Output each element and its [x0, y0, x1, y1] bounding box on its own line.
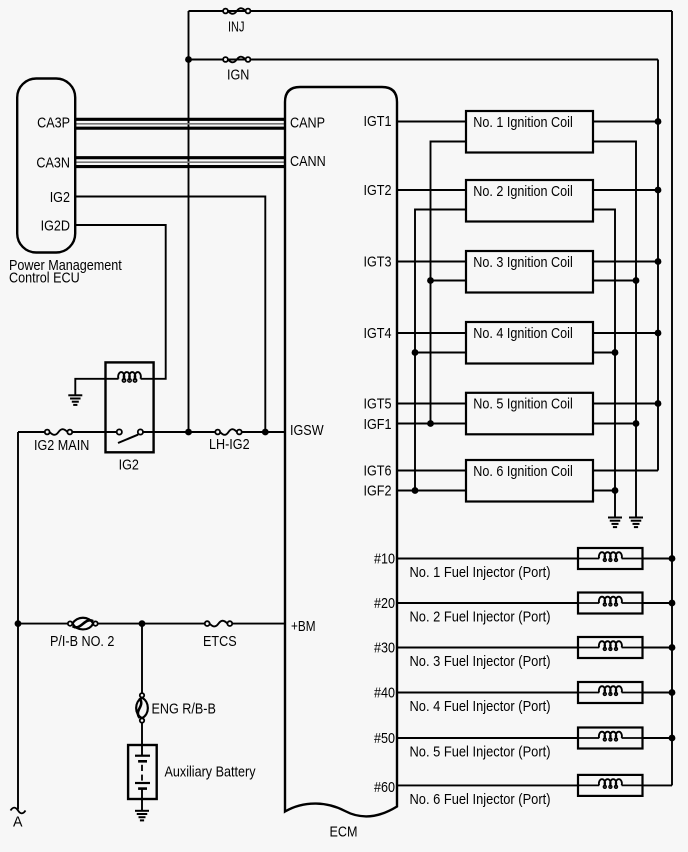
- node junction coil 2 power: [655, 187, 662, 194]
- ignition coil box No. 2: [466, 180, 593, 222]
- svg-text:IG2: IG2: [119, 457, 139, 474]
- ground battery: [135, 811, 149, 821]
- svg-text:No. 1 Fuel Injector (Port): No. 1 Fuel Injector (Port): [410, 564, 551, 581]
- ignition coil box No. 4: [466, 322, 593, 364]
- wire ENG R/B-B link to battery: [141, 723, 143, 745]
- wire ECM IGT3 to coil 3: [397, 261, 466, 263]
- wire ECM #60 to injector 6: [397, 784, 578, 786]
- wire ECM IGT5 to coil 5: [397, 403, 466, 405]
- wire battery branch down to ENG R/B-B link: [141, 624, 143, 694]
- node junction injector 3 feed: [669, 644, 676, 651]
- wire injector 6 to INJ bus: [643, 784, 673, 786]
- ground ignition coils A: [629, 518, 643, 528]
- wire ECM IGT1 to coil 1: [397, 121, 466, 123]
- ignition coil box No. 3: [466, 251, 593, 293]
- svg-text:CA3P: CA3P: [37, 115, 70, 132]
- wire CANN twisted bus (CA3N to CANN): [76, 158, 285, 167]
- svg-text:No. 1 Ignition Coil: No. 1 Ignition Coil: [473, 114, 573, 131]
- node junction IGF2 coil4: [412, 349, 419, 356]
- svg-text:Control ECU: Control ECU: [9, 270, 80, 287]
- node junction IG2 sense tap: [262, 429, 269, 436]
- svg-text:IGT6: IGT6: [364, 462, 392, 479]
- node junction injector 5 feed: [669, 735, 676, 742]
- svg-text:#30: #30: [374, 640, 395, 657]
- fuel injector box No. 5: [578, 728, 643, 749]
- svg-text:ECM: ECM: [330, 823, 358, 840]
- relay IG2 coil: [118, 372, 141, 382]
- node junction injector 4 feed: [669, 689, 676, 696]
- svg-text:IGSW: IGSW: [290, 422, 324, 439]
- svg-text:IGT3: IGT3: [364, 253, 392, 270]
- fuel injector coil No. 1: [578, 552, 643, 561]
- svg-text:No. 4 Fuel Injector (Port): No. 4 Fuel Injector (Port): [410, 698, 551, 715]
- svg-text:No. 3 Ignition Coil: No. 3 Ignition Coil: [473, 254, 573, 271]
- fuel injector box No. 4: [578, 682, 643, 703]
- node junction IGN tap: [185, 56, 192, 63]
- fusible link P/I-B NO. 2: [68, 618, 98, 630]
- wire ECM IGT2 to coil 2: [397, 189, 466, 191]
- node junction coil 4 power: [655, 330, 662, 337]
- fuel injector box No. 3: [578, 637, 643, 658]
- svg-text:+BM: +BM: [291, 618, 316, 635]
- svg-text:#50: #50: [374, 730, 395, 747]
- svg-text:IGT1: IGT1: [364, 113, 392, 130]
- svg-text:No. 2 Fuel Injector (Port): No. 2 Fuel Injector (Port): [410, 609, 551, 626]
- node junction ground bus coil3: [633, 277, 640, 284]
- svg-text:IGF2: IGF2: [364, 483, 392, 500]
- wire ECM #20 to injector 2: [397, 602, 578, 604]
- wire ECM #40 to injector 4: [397, 692, 578, 694]
- svg-text:No. 6 Fuel Injector (Port): No. 6 Fuel Injector (Port): [410, 791, 551, 808]
- wire coil ground bus B (2,4,6): [593, 210, 615, 518]
- fuel injector box No. 2: [578, 593, 643, 614]
- wire coil 2 power feed: [593, 189, 658, 191]
- wire IGN feed: [189, 59, 659, 61]
- fuse IG2 MAIN: [45, 429, 72, 435]
- wire fusible link to ETCS fuse: [98, 623, 205, 625]
- fuel injector coil No. 4: [578, 686, 643, 695]
- relay IG2 switch contacts: [117, 429, 143, 443]
- wire injector 5 to INJ bus: [643, 737, 673, 739]
- svg-text:No. 6 Ignition Coil: No. 6 Ignition Coil: [473, 463, 573, 480]
- ground relay coil: [68, 395, 82, 405]
- wire relay output to LH-IG2 fuse: [143, 431, 215, 433]
- svg-text:IGT5: IGT5: [364, 396, 392, 413]
- ignition coil box No. 1: [466, 111, 593, 153]
- wire IGN bus down to ignition coils: [657, 60, 659, 471]
- svg-text:#60: #60: [374, 779, 395, 796]
- node junction coil 5 power: [655, 400, 662, 407]
- svg-text:P/I-B NO. 2: P/I-B NO. 2: [50, 633, 114, 650]
- node junction injector 1 feed: [669, 555, 676, 562]
- wire main IG2 row left segment: [18, 431, 45, 433]
- wire ECM #10 to injector 1: [397, 558, 578, 560]
- wire LH-IG2 fuse to ECM IGSW: [242, 431, 285, 433]
- svg-text:CA3N: CA3N: [36, 155, 70, 172]
- svg-text:#40: #40: [374, 685, 395, 702]
- wire injector 4 to INJ bus: [643, 692, 673, 694]
- box ECM outline with torn bottom: [285, 87, 397, 816]
- wire ECM IGT6 to coil 6: [397, 470, 466, 472]
- svg-text:No. 2 Ignition Coil: No. 2 Ignition Coil: [473, 183, 573, 200]
- node junction coil 3 power: [655, 258, 662, 265]
- fuel injector coil No. 5: [578, 732, 643, 741]
- wire ECM #30 to injector 3: [397, 647, 578, 649]
- wire INJ feed top: [189, 10, 673, 12]
- svg-text:CANN: CANN: [290, 153, 326, 170]
- wire IG2D pin to relay coil: [76, 225, 166, 379]
- wire injector 2 to INJ bus: [643, 602, 673, 604]
- svg-text:No. 5 Ignition Coil: No. 5 Ignition Coil: [473, 396, 573, 413]
- wire coil 3 power feed: [593, 261, 658, 263]
- wire ECM IGT4 to coil 4: [397, 332, 466, 334]
- fuel injector coil No. 2: [578, 597, 643, 606]
- node junction battery branch: [139, 620, 146, 627]
- wire vertical from INJ/IGN fuses down to IGSW row: [188, 11, 190, 432]
- svg-text:ENG R/B-B: ENG R/B-B: [152, 701, 216, 718]
- fuel injector box No. 6: [578, 775, 643, 796]
- node junction left line / +B row: [15, 620, 22, 627]
- wire coil 4 power feed: [593, 332, 658, 334]
- fuel injector coil No. 3: [578, 641, 643, 650]
- wire IG2 MAIN fuse to relay: [71, 431, 117, 433]
- wire relay coil left lead to ground: [75, 379, 118, 395]
- fuse IGN: [223, 57, 250, 63]
- ignition coil box No. 5: [466, 393, 593, 435]
- svg-text:A: A: [13, 814, 23, 831]
- node junction injector 2 feed: [669, 600, 676, 607]
- node junction coil 1 power: [655, 118, 662, 125]
- node junction IGF1 row: [427, 420, 434, 427]
- fuse INJ: [223, 8, 250, 14]
- svg-text:Auxiliary Battery: Auxiliary Battery: [165, 764, 256, 781]
- fusible link ENG R/B-B: [136, 693, 148, 723]
- wire +B row: left line to fusible link: [18, 623, 68, 625]
- wire CANP twisted bus (CA3P to CANP): [76, 119, 285, 128]
- svg-text:IGT4: IGT4: [364, 325, 392, 342]
- fuse ETCS: [205, 621, 232, 627]
- node junction relay output / ignition feed: [185, 429, 192, 436]
- battery Auxiliary Battery box: [128, 745, 157, 799]
- svg-text:ETCS: ETCS: [203, 633, 237, 650]
- battery cells: [135, 745, 150, 811]
- svg-text:#10: #10: [374, 551, 395, 568]
- wire coil 1 power feed: [593, 121, 658, 123]
- wire coil ground bus A (1,3,5): [593, 142, 636, 518]
- wire ECM #50 to injector 5: [397, 737, 578, 739]
- svg-text:#20: #20: [374, 595, 395, 612]
- svg-text:IGN: IGN: [227, 67, 249, 84]
- svg-text:INJ: INJ: [228, 19, 245, 36]
- svg-text:CANP: CANP: [290, 114, 325, 131]
- wire ETCS fuse to ECM +BM: [232, 623, 285, 625]
- svg-text:IG2: IG2: [50, 189, 70, 206]
- svg-text:No. 5 Fuel Injector (Port): No. 5 Fuel Injector (Port): [410, 744, 551, 761]
- wire IG2 pin to vertical: [76, 197, 265, 433]
- svg-text:IG2D: IG2D: [41, 218, 71, 235]
- svg-text:No. 4 Ignition Coil: No. 4 Ignition Coil: [473, 325, 573, 342]
- relay IG2 box: [106, 362, 154, 452]
- box Power Management Control ECU: [17, 79, 75, 253]
- node junction ground bus coil4: [612, 349, 619, 356]
- wire right bus from INJ fuse down to injectors: [671, 11, 673, 785]
- wire injector 1 to INJ bus: [643, 558, 673, 560]
- svg-text:IGF1: IGF1: [364, 416, 392, 433]
- wire injector 3 to INJ bus: [643, 647, 673, 649]
- wire coil 6 power feed: [593, 470, 658, 472]
- node A continuation break: [11, 808, 26, 814]
- node junction IGF1 coil3: [427, 277, 434, 284]
- wire IGF1 bus (coils 1,3,5): [431, 142, 467, 424]
- ground ignition coils B: [608, 518, 622, 528]
- svg-text:IG2 MAIN: IG2 MAIN: [34, 437, 89, 454]
- svg-text:LH-IG2: LH-IG2: [209, 436, 250, 453]
- wire coil 5 power feed: [593, 403, 658, 405]
- wire left battery feed vertical: [17, 432, 19, 810]
- node junction IGF2 row: [412, 487, 419, 494]
- wire IGF2 bus (coils 2,4,6): [415, 210, 466, 491]
- node junction ground bus coil5: [633, 420, 640, 427]
- fuel injector box No. 1: [578, 548, 643, 569]
- fuel injector coil No. 6: [578, 779, 643, 788]
- fuse LH-IG2: [215, 429, 241, 435]
- ignition coil box No. 6: [466, 460, 593, 502]
- svg-text:IGT2: IGT2: [364, 182, 392, 199]
- node junction ground bus coil6: [612, 487, 619, 494]
- svg-text:No. 3 Fuel Injector (Port): No. 3 Fuel Injector (Port): [410, 653, 551, 670]
